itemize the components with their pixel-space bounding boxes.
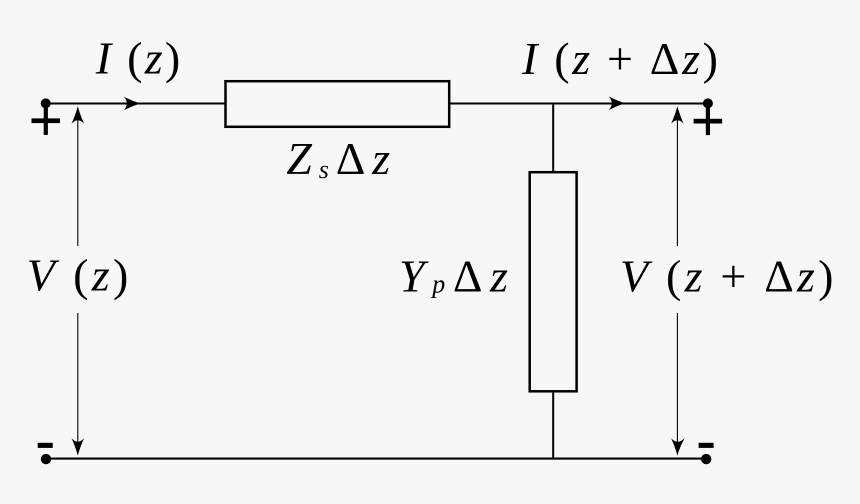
node bottom-right terminal dot — [701, 454, 711, 464]
admittance Yp shunt box — [530, 172, 577, 391]
voltage arrow V(z+dz) double-headed — [676, 114, 678, 448]
plus sign right — [694, 108, 723, 135]
svg-text:V (z + Δz): V (z + Δz) — [620, 250, 834, 301]
current arrow I(z) — [124, 97, 141, 111]
svg-text:I (z + Δz): I (z + Δz) — [521, 33, 718, 84]
node top-right terminal dot — [703, 98, 713, 108]
plus sign left — [32, 108, 61, 135]
wire shunt top — [552, 104, 554, 173]
svg-text:YpΔz: YpΔz — [399, 250, 508, 301]
wire shunt bottom — [552, 391, 554, 458]
voltage arrow V(z) double-headed — [77, 114, 79, 448]
svg-text:ZsΔz: ZsΔz — [286, 133, 390, 184]
node top-left terminal dot — [41, 98, 51, 108]
svg-text:I (z): I (z) — [95, 32, 181, 83]
minus sign left — [38, 443, 53, 448]
node bottom-left terminal dot — [41, 454, 51, 464]
wire bottom — [46, 458, 707, 460]
wire top-left segment — [46, 103, 226, 105]
wire top-right segment — [449, 103, 707, 105]
current arrow I(z+dz) — [609, 96, 626, 110]
resistor Zs series impedance box — [226, 81, 450, 127]
minus sign right — [699, 443, 714, 448]
svg-text:V (z): V (z) — [27, 249, 129, 300]
